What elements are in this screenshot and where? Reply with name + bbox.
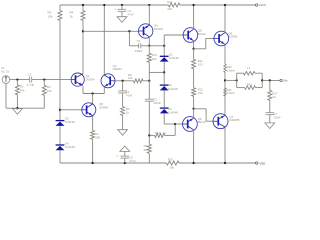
svg-text:BD139: BD139 bbox=[198, 32, 206, 36]
svg-text:+: + bbox=[116, 155, 118, 159]
svg-text:10k: 10k bbox=[169, 165, 174, 169]
svg-text:AC 1V: AC 1V bbox=[1, 70, 9, 74]
svg-text:1N4148: 1N4148 bbox=[65, 145, 75, 149]
svg-text:R13: R13 bbox=[155, 131, 161, 135]
svg-text:100: 100 bbox=[95, 135, 100, 139]
svg-text:100: 100 bbox=[167, 7, 172, 11]
svg-text:220: 220 bbox=[152, 57, 157, 61]
svg-text:680: 680 bbox=[144, 148, 149, 152]
svg-text:47uF: 47uF bbox=[127, 12, 134, 16]
svg-text:C1: C1 bbox=[28, 73, 32, 77]
svg-text:1k: 1k bbox=[70, 14, 74, 18]
svg-text:1N4148: 1N4148 bbox=[168, 87, 178, 91]
svg-text:-VEE: -VEE bbox=[259, 161, 266, 165]
svg-text:R16: R16 bbox=[247, 82, 253, 86]
svg-text:BD140: BD140 bbox=[198, 121, 206, 124]
svg-text:R15: R15 bbox=[168, 158, 174, 162]
svg-text:10k: 10k bbox=[47, 89, 52, 93]
svg-text:330pF: 330pF bbox=[135, 49, 143, 53]
svg-text:Q4: Q4 bbox=[154, 24, 158, 28]
svg-text:2N3904: 2N3904 bbox=[113, 67, 123, 71]
svg-text:100nF: 100nF bbox=[153, 101, 161, 105]
svg-text:47uF: 47uF bbox=[126, 94, 133, 98]
svg-text:2N4403: 2N4403 bbox=[154, 27, 164, 31]
svg-text:1N4148: 1N4148 bbox=[65, 120, 75, 124]
svg-text:0.5ohm: 0.5ohm bbox=[227, 92, 235, 95]
svg-text:4.7uF: 4.7uF bbox=[27, 83, 35, 87]
svg-text:100: 100 bbox=[198, 91, 203, 95]
svg-text:+: + bbox=[115, 7, 117, 11]
svg-text:Q5: Q5 bbox=[99, 102, 103, 106]
svg-text:Out: Out bbox=[283, 79, 288, 83]
svg-text:22k: 22k bbox=[128, 76, 133, 80]
svg-text:2N3904: 2N3904 bbox=[99, 106, 109, 110]
svg-text:C3: C3 bbox=[137, 39, 141, 43]
svg-text:MJE2955: MJE2955 bbox=[229, 119, 240, 122]
svg-text:MJ2955: MJ2955 bbox=[228, 36, 238, 39]
svg-text:Q1: Q1 bbox=[86, 74, 90, 78]
svg-text:C7: C7 bbox=[273, 112, 277, 116]
svg-text:10k: 10k bbox=[48, 14, 53, 18]
svg-text:0.5ohm: 0.5ohm bbox=[227, 69, 235, 72]
svg-text:+VCC: +VCC bbox=[259, 3, 267, 7]
svg-text:100nF: 100nF bbox=[273, 115, 281, 119]
svg-text:R20: R20 bbox=[227, 65, 233, 69]
svg-text:100: 100 bbox=[198, 63, 203, 67]
svg-text:L1: L1 bbox=[247, 66, 251, 70]
svg-text:R21: R21 bbox=[227, 88, 233, 92]
svg-text:47k: 47k bbox=[20, 88, 25, 92]
svg-text:Q2: Q2 bbox=[113, 64, 117, 68]
svg-text:2N3904: 2N3904 bbox=[86, 78, 96, 82]
svg-text:47uF: 47uF bbox=[129, 159, 136, 163]
svg-text:1N4148: 1N4148 bbox=[168, 111, 178, 115]
svg-text:R14: R14 bbox=[167, 0, 173, 4]
svg-text:Q8: Q8 bbox=[198, 28, 202, 32]
svg-text:10: 10 bbox=[272, 95, 276, 99]
svg-text:1N4148: 1N4148 bbox=[169, 56, 179, 60]
